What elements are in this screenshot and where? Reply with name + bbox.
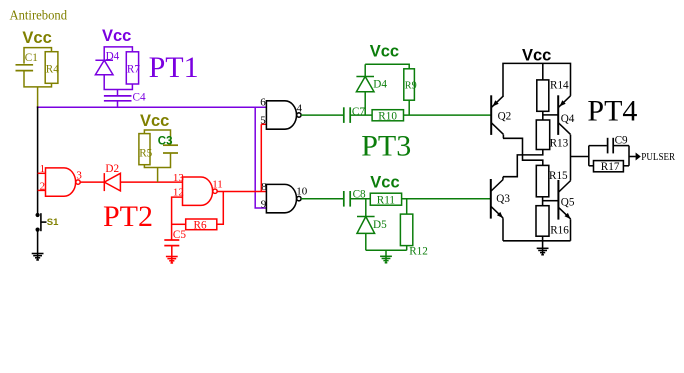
- wire pin 12 stub: [172, 197, 183, 240]
- wire Q2 collector jog: [503, 138, 543, 165]
- diode D4 (PT1): [95, 59, 113, 61]
- svg-text:C9: C9: [615, 134, 628, 146]
- transistor Q3: [490, 179, 492, 219]
- svg-text:11: 11: [212, 179, 223, 191]
- nand gate U1B: [183, 177, 213, 205]
- wire bracket left: [588, 146, 590, 166]
- svg-text:Q3: Q3: [496, 193, 510, 205]
- capacitor C4: [104, 95, 132, 97]
- wire R17 right stub: [623, 165, 629, 167]
- resistor R13: [536, 120, 549, 150]
- svg-text:5: 5: [260, 114, 266, 126]
- resistor R11: [370, 193, 401, 205]
- svg-text:R7: R7: [127, 63, 140, 75]
- svg-text:R5: R5: [139, 147, 152, 159]
- wire R17 left stub: [589, 165, 594, 167]
- wire input vertical line: [37, 106, 39, 215]
- wire C7 to R10: [350, 114, 372, 116]
- capacitor C8: [343, 191, 345, 207]
- wire R5C3 stem to pin13 net: [157, 168, 159, 183]
- svg-text:Vcc: Vcc: [370, 42, 399, 60]
- wire pin 2 stub: [38, 189, 46, 191]
- transistor Q4: [557, 95, 559, 135]
- node S1 bottom contact: [36, 228, 40, 232]
- resistor R17: [594, 161, 624, 172]
- capacitor C5: [164, 239, 179, 241]
- svg-text:PULSER: PULSER: [641, 152, 675, 163]
- svg-text:Q5: Q5: [561, 197, 575, 209]
- svg-text:Antirebond: Antirebond: [10, 9, 68, 24]
- wire PT4 bottom rail: [503, 240, 571, 242]
- wire D2 to pin 13: [120, 181, 182, 183]
- resistor R15: [536, 165, 549, 196]
- svg-text:R16: R16: [550, 225, 569, 237]
- wire R6 right stub: [217, 192, 224, 225]
- resistor R7: [126, 52, 138, 84]
- wire antirebond stem: [37, 87, 39, 107]
- svg-text:2: 2: [40, 181, 46, 193]
- diode D5: [357, 216, 375, 218]
- resistor R16: [536, 206, 549, 237]
- switch S1 actuator: [40, 213, 42, 231]
- resistor R4: [45, 52, 58, 84]
- capacitor C3: [163, 144, 178, 146]
- wire R12 top stem: [406, 199, 408, 214]
- capacitor C7: [343, 107, 345, 123]
- svg-text:PT2: PT2: [103, 200, 153, 233]
- wire D4 to Vcc rail: [364, 64, 366, 76]
- node S1 top contact: [36, 213, 40, 217]
- svg-text:R10: R10: [378, 110, 397, 122]
- wire R15-R16 junction to Q5 base: [542, 197, 544, 206]
- wire output node to bracket: [571, 156, 589, 158]
- wire D5 bottom stem: [365, 233, 367, 250]
- svg-text:13: 13: [173, 172, 185, 184]
- svg-text:1: 1: [40, 163, 46, 175]
- wire R14 top stem: [542, 63, 544, 80]
- wire R6 left stub: [172, 223, 186, 225]
- wire R12 bottom stem: [406, 246, 408, 251]
- ground (PT3 lower): [385, 256, 387, 263]
- svg-text:8: 8: [261, 181, 267, 193]
- svg-text:Vcc: Vcc: [140, 112, 169, 130]
- svg-text:PT4: PT4: [587, 95, 637, 128]
- svg-text:R6: R6: [194, 220, 207, 232]
- wire Q2 collector stub: [502, 135, 504, 139]
- nand gate U1A: [46, 168, 76, 196]
- wire purple bus to pin 6: [37, 106, 267, 108]
- svg-text:D2: D2: [105, 163, 119, 175]
- svg-text:3: 3: [76, 170, 82, 182]
- wire top rail antirebond: [24, 48, 52, 64]
- resistor R6: [186, 219, 217, 230]
- resistor R10: [372, 110, 403, 121]
- wire R9 bottom stem: [408, 100, 410, 115]
- wire Q3 collector stub: [502, 177, 504, 180]
- capacitor C1: [16, 64, 34, 66]
- svg-text:4: 4: [297, 102, 303, 114]
- svg-text:PT3: PT3: [361, 129, 411, 162]
- svg-text:10: 10: [296, 186, 308, 198]
- wire PT3 lower bottom rail: [366, 249, 407, 251]
- svg-text:Q4: Q4: [561, 113, 575, 125]
- svg-text:R12: R12: [409, 245, 428, 257]
- wire D5 top stem: [365, 199, 367, 217]
- svg-text:R4: R4: [46, 64, 59, 76]
- svg-text:D4: D4: [106, 50, 120, 62]
- wire R5C3 top rail: [144, 130, 170, 145]
- wire bottom rail antirebond: [24, 71, 52, 87]
- svg-text:Q2: Q2: [498, 111, 512, 123]
- svg-text:R11: R11: [377, 194, 395, 206]
- diode D4 (PT3): [356, 76, 374, 78]
- wire gate 3 output to D2: [80, 181, 104, 183]
- wire C9 left stub: [589, 145, 607, 147]
- svg-text:C7: C7: [352, 106, 365, 118]
- resistor R5: [139, 134, 150, 165]
- wire R11 to Q3 base: [402, 198, 491, 200]
- svg-text:6: 6: [260, 96, 266, 108]
- resistor R9: [404, 69, 415, 100]
- svg-text:C1: C1: [25, 52, 38, 64]
- wire output 11 to pins 5 and 8: [260, 124, 262, 191]
- wire C9 right stub: [613, 145, 629, 147]
- wire C4 top stem: [117, 90, 119, 96]
- transistor Q2: [490, 95, 492, 135]
- svg-text:Vcc: Vcc: [370, 174, 399, 192]
- arrow PULSER: [636, 153, 641, 161]
- wire gate 10 output to C8: [301, 198, 344, 200]
- wire R5C3 bottom rail: [144, 153, 170, 168]
- wire R13 bottom jog: [503, 150, 543, 177]
- wire bracket right: [628, 146, 630, 166]
- wire purple branch to pin 9: [255, 107, 266, 208]
- svg-text:C4: C4: [133, 92, 146, 104]
- svg-text:R14: R14: [550, 79, 569, 91]
- resistor R14: [537, 80, 549, 111]
- svg-text:R13: R13: [550, 138, 569, 150]
- ground (below C5): [171, 256, 173, 263]
- svg-text:PT1: PT1: [149, 51, 199, 84]
- svg-text:Vcc: Vcc: [102, 27, 131, 45]
- wire C4 bottom stem: [117, 101, 119, 107]
- svg-text:Vcc: Vcc: [22, 29, 51, 47]
- nand gate U2B: [266, 184, 296, 212]
- wire S1 to ground: [37, 230, 39, 254]
- wire pin 5 stub: [261, 123, 266, 125]
- ground (PT4): [542, 248, 544, 255]
- nand gate U2A: [266, 101, 296, 129]
- wire R14-R13 junction to Q4 base: [542, 111, 544, 120]
- svg-text:9: 9: [261, 198, 267, 210]
- wire PT1 top rail: [104, 47, 132, 60]
- svg-text:Vcc: Vcc: [522, 47, 551, 65]
- svg-text:D4: D4: [373, 79, 387, 91]
- resistor R12: [400, 214, 412, 246]
- svg-text:R17: R17: [601, 161, 620, 173]
- wire gate 11 output: [217, 191, 267, 193]
- wire gate 4 output to C7: [301, 114, 344, 116]
- svg-text:D5: D5: [373, 219, 387, 231]
- svg-text:C5: C5: [173, 229, 186, 241]
- wire C5 to ground: [171, 246, 173, 257]
- wire Q3 emitter to rail: [502, 218, 504, 241]
- diode D2: [103, 173, 105, 191]
- ground (below S1): [37, 253, 39, 260]
- wire PT4 Vcc rail: [503, 63, 571, 96]
- svg-text:S1: S1: [47, 217, 59, 228]
- wire R10 to Q2 base: [404, 114, 492, 116]
- svg-text:R9: R9: [405, 80, 417, 91]
- wire to PULSER arrow: [629, 156, 636, 158]
- transistor Q5: [557, 180, 559, 220]
- wire R16 bottom stem: [542, 236, 544, 241]
- wire C8 to R11: [350, 198, 370, 200]
- wire Q5 emitter to rail: [570, 219, 572, 241]
- wire PT3 Vcc rail: [365, 64, 409, 69]
- wire D4 stem: [364, 92, 366, 115]
- wire pin 1 stub: [38, 172, 46, 174]
- wire PT1 bottom rail: [104, 75, 132, 90]
- capacitor C9: [607, 138, 609, 154]
- wire Q4-Q5 collectors: [570, 135, 572, 181]
